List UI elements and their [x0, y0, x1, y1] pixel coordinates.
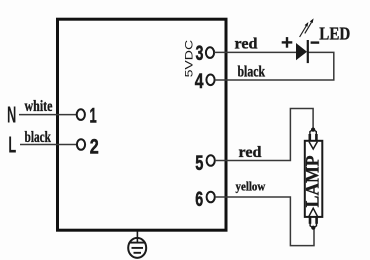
svg-text:L: L	[8, 131, 16, 157]
svg-text:3: 3	[196, 41, 204, 64]
svg-text:5: 5	[195, 151, 203, 174]
svg-text:1: 1	[90, 103, 97, 127]
svg-text:2: 2	[90, 135, 99, 159]
svg-text:6: 6	[195, 187, 203, 210]
svg-text:black: black	[238, 64, 266, 81]
svg-text:red: red	[239, 144, 262, 161]
svg-text:N: N	[7, 102, 16, 128]
svg-text:5VDC: 5VDC	[184, 40, 196, 78]
svg-text:white: white	[25, 98, 53, 115]
svg-text:4: 4	[195, 69, 204, 93]
svg-text:LAMP: LAMP	[303, 155, 324, 207]
svg-text:red: red	[235, 35, 258, 52]
svg-text:LED: LED	[319, 23, 350, 43]
svg-text:black: black	[25, 129, 52, 146]
svg-text:yellow: yellow	[236, 178, 266, 193]
